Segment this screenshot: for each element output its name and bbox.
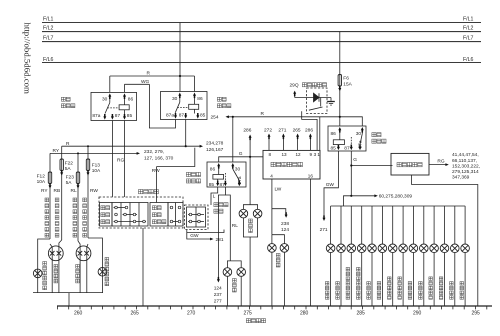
svg-text:8: 8 <box>269 152 272 157</box>
svg-text:281: 281 <box>216 237 224 243</box>
svg-text:87: 87 <box>344 146 350 152</box>
svg-text:F/L1: F/L1 <box>463 17 473 23</box>
svg-text:L: L <box>213 194 216 200</box>
svg-text:234,278: 234,278 <box>206 141 224 147</box>
svg-text:RL: RL <box>71 188 77 194</box>
svg-text:F/L7: F/L7 <box>43 36 53 42</box>
svg-text:87a: 87a <box>237 176 243 184</box>
svg-text:RW: RW <box>90 188 98 194</box>
svg-text:85: 85 <box>127 113 133 119</box>
svg-text:232, 279,: 232, 279, <box>144 149 164 155</box>
svg-text:RY: RY <box>53 148 60 154</box>
svg-text:5A: 5A <box>65 166 72 172</box>
svg-text:10A: 10A <box>37 179 46 185</box>
svg-text:85: 85 <box>331 146 337 152</box>
svg-text:87: 87 <box>179 112 185 118</box>
svg-text:F/L1: F/L1 <box>43 17 53 23</box>
svg-text:265: 265 <box>293 127 301 133</box>
svg-text:F13: F13 <box>92 163 101 169</box>
svg-text:F6: F6 <box>343 76 349 82</box>
svg-text:15A: 15A <box>343 82 352 88</box>
svg-text:87a: 87a <box>358 140 364 148</box>
svg-text:LW: LW <box>275 187 282 193</box>
svg-text:R: R <box>66 141 70 147</box>
svg-text:16: 16 <box>308 174 314 179</box>
svg-text:85: 85 <box>200 112 206 118</box>
svg-text:86: 86 <box>128 97 134 103</box>
svg-text:60,275,280,309: 60,275,280,309 <box>379 194 413 200</box>
svg-text:F23: F23 <box>66 175 75 181</box>
svg-text:286: 286 <box>305 127 313 133</box>
svg-text:10A: 10A <box>92 168 101 174</box>
svg-text:29Q: 29Q <box>290 83 299 89</box>
svg-text:275: 275 <box>244 311 253 317</box>
svg-text:86: 86 <box>210 166 216 172</box>
svg-text:RB: RB <box>54 188 61 194</box>
svg-text:F/L2: F/L2 <box>463 26 473 32</box>
svg-text:RW: RW <box>152 168 160 174</box>
svg-text:F/L6: F/L6 <box>43 57 53 63</box>
svg-text:270: 270 <box>187 311 196 317</box>
svg-text:271: 271 <box>320 227 328 233</box>
svg-text:GW: GW <box>190 233 199 239</box>
svg-text:127, 166, 370: 127, 166, 370 <box>144 155 174 161</box>
svg-text:285: 285 <box>357 311 366 317</box>
svg-text:30: 30 <box>235 166 241 172</box>
svg-text:87: 87 <box>115 113 121 119</box>
svg-text:F12: F12 <box>37 174 46 180</box>
svg-text:238: 238 <box>281 221 289 227</box>
svg-text:GW: GW <box>326 182 335 188</box>
svg-text:RG: RG <box>117 158 124 164</box>
svg-text:1: 1 <box>317 152 320 157</box>
svg-text:R: R <box>261 111 265 117</box>
svg-text:237: 237 <box>214 292 222 298</box>
svg-text:13: 13 <box>282 152 288 157</box>
svg-text:66,110,137,: 66,110,137, <box>452 158 477 164</box>
svg-text:3: 3 <box>314 152 317 157</box>
svg-text:87a: 87a <box>166 112 174 118</box>
svg-text:86: 86 <box>331 131 337 137</box>
svg-text:272: 272 <box>264 127 272 133</box>
svg-text:295: 295 <box>472 311 481 317</box>
svg-text:280: 280 <box>300 311 309 317</box>
svg-text:126,167: 126,167 <box>206 147 224 153</box>
svg-text:271: 271 <box>278 127 286 133</box>
svg-text:30: 30 <box>356 131 362 137</box>
svg-text:R: R <box>147 71 151 77</box>
svg-text:RL: RL <box>232 223 238 229</box>
svg-text:265: 265 <box>131 311 140 317</box>
svg-text:RY: RY <box>41 188 48 194</box>
svg-text:347,369: 347,369 <box>452 175 470 181</box>
svg-text:F/L7: F/L7 <box>463 36 473 42</box>
svg-text:F/L2: F/L2 <box>43 26 53 32</box>
svg-text:4: 4 <box>270 174 273 179</box>
svg-text:124: 124 <box>214 285 222 291</box>
svg-text:85: 85 <box>209 182 215 188</box>
svg-text:277: 277 <box>214 298 222 304</box>
svg-text:260: 260 <box>74 311 83 317</box>
svg-text:G: G <box>239 151 243 157</box>
svg-text:279,125,314: 279,125,314 <box>452 169 479 175</box>
svg-text:WG: WG <box>141 79 150 85</box>
svg-text:G: G <box>353 157 357 163</box>
svg-text:RG: RG <box>437 159 444 165</box>
svg-text:286: 286 <box>243 127 251 133</box>
svg-text:87: 87 <box>220 182 226 188</box>
svg-text:12: 12 <box>296 152 302 157</box>
svg-text:30: 30 <box>172 96 178 102</box>
svg-text:152,303,222,: 152,303,222, <box>452 163 480 169</box>
svg-text:41,44,47,54,: 41,44,47,54, <box>452 152 479 158</box>
svg-text:30: 30 <box>102 97 108 103</box>
svg-text:87a: 87a <box>92 113 100 119</box>
svg-text:254: 254 <box>211 115 219 121</box>
svg-text:5A: 5A <box>66 180 73 186</box>
svg-text:F/L6: F/L6 <box>463 57 473 63</box>
svg-text:124: 124 <box>281 227 289 233</box>
svg-text:9: 9 <box>310 152 313 157</box>
svg-text:F22: F22 <box>65 161 74 167</box>
svg-text:http://obd.5d6d.com: http://obd.5d6d.com <box>23 23 33 95</box>
svg-text:86: 86 <box>197 96 203 102</box>
svg-text:290: 290 <box>413 311 422 317</box>
